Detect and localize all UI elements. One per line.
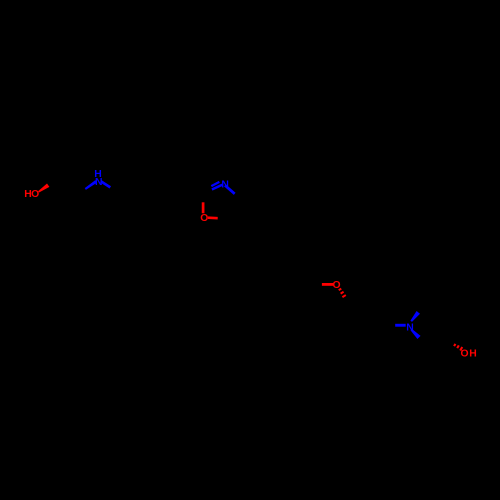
svg-text:O: O bbox=[31, 189, 39, 200]
svg-text:H: H bbox=[469, 349, 477, 360]
svg-text:O: O bbox=[200, 213, 208, 224]
